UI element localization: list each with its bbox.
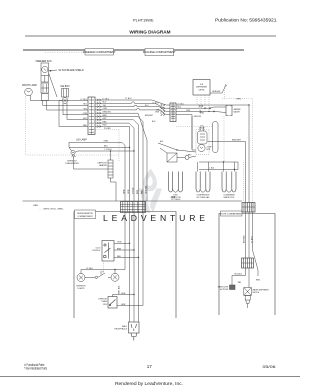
wire fan conn pin1 <box>43 101 89 106</box>
refrigerator compartment box <box>74 212 176 319</box>
svg-text:CNTRL: CNTRL <box>198 89 204 91</box>
svg-text:GRN-YEL: GRN-YEL <box>194 116 202 118</box>
svg-text:BRN-WHT: BRN-WHT <box>145 115 153 117</box>
freezer fan connector stack <box>41 83 49 101</box>
dashed boundary left of freezer label <box>45 51 85 53</box>
wire ORN to bundle <box>69 141 125 201</box>
left bus wire labels <box>80 99 87 127</box>
svg-text:BRN: BRN <box>137 189 139 194</box>
svg-text:WATER DISPENSER: WATER DISPENSER <box>253 288 270 291</box>
svg-text:ORN: ORN <box>117 242 122 244</box>
dashed drop near door hinge <box>243 162 245 202</box>
door hinge connector <box>242 203 255 213</box>
dispenser switch tail connector <box>245 296 250 309</box>
svg-text:LT BLU: LT BLU <box>132 187 134 194</box>
wire ORN to strip B <box>95 108 170 114</box>
compressor lower wires <box>198 161 239 172</box>
svg-text:YEL: YEL <box>83 108 87 110</box>
svg-text:GRN: GRN <box>33 205 38 207</box>
svg-text:DOOR COMPARTMENT: DOOR COMPARTMENT <box>220 213 243 216</box>
strip B right labels <box>178 103 191 111</box>
water dispenser switch <box>244 268 270 296</box>
dashed spare wire <box>95 130 119 161</box>
svg-text:GRN: GRN <box>123 189 125 194</box>
freezer compartment top boundary line <box>23 49 244 51</box>
wire PUR corner down <box>95 126 130 201</box>
wire motor to ice maker area <box>49 73 57 97</box>
small wire labels machine area <box>152 111 204 123</box>
svg-text:CAPACITOR: CAPACITOR <box>170 196 181 199</box>
svg-text:RED: RED <box>117 256 122 258</box>
door switch <box>85 271 105 279</box>
svg-text:ORN: ORN <box>83 113 88 115</box>
dashed run from front lamp <box>26 96 120 155</box>
svg-text:BLU-BLK: BLU-BLK <box>235 274 243 276</box>
svg-text:FREEZER COMPARTMENT: FREEZER COMPARTMENT <box>83 50 116 54</box>
svg-text:WIRING DIAGRAM: WIRING DIAGRAM <box>129 30 170 35</box>
bus wires to machine compartment <box>95 100 170 201</box>
wire RED bend down <box>95 123 134 201</box>
wire to valve <box>176 107 226 108</box>
water valve <box>226 106 241 116</box>
defrost heater <box>97 160 113 178</box>
rotated wire labels below connector <box>244 234 254 243</box>
wire fan conn pin2 <box>47 101 89 111</box>
svg-text:GRN: GRN <box>121 304 126 306</box>
connector strip B <box>170 103 176 122</box>
chevrons before strip B <box>161 104 166 116</box>
defrost thermostat <box>65 156 79 166</box>
svg-text:ORN: ORN <box>155 111 160 113</box>
svg-text:FRONT LAMP: FRONT LAMP <box>22 84 37 87</box>
svg-text:W/ FAN BLADE SHIELD: W/ FAN BLADE SHIELD <box>59 69 84 72</box>
svg-text:SWITCH: SWITCH <box>253 292 260 294</box>
svg-text:ORN: ORN <box>104 141 109 143</box>
connector strip A <box>88 97 95 135</box>
wires right of strip B <box>176 105 249 149</box>
wire heater top to lt blu <box>110 150 111 160</box>
dispenser actuator <box>242 258 254 268</box>
pre strip B labels <box>145 103 161 117</box>
svg-text:COMPARTMENT: COMPARTMENT <box>77 215 93 218</box>
right bus wire labels <box>103 98 111 126</box>
svg-text:BLK: BLK <box>104 146 108 148</box>
wire LT.BLU long <box>176 104 249 106</box>
svg-text:BRN-WHT: BRN-WHT <box>232 140 242 142</box>
compressor relay unit dashed enclosure <box>196 130 209 155</box>
svg-text:LT. BLU: LT. BLU <box>153 103 160 105</box>
svg-text:GRN: GRN <box>121 293 126 295</box>
svg-text:ACTR SW: ACTR SW <box>220 288 228 291</box>
svg-text:05/06: 05/06 <box>263 365 276 369</box>
front lamp <box>22 84 37 96</box>
svg-text:LID LAMP: LID LAMP <box>76 139 87 142</box>
svg-text:HEATER: HEATER <box>99 164 108 167</box>
start relay box <box>167 153 192 162</box>
svg-text:LT. BLU: LT. BLU <box>80 99 87 101</box>
wire down to relay <box>176 115 192 149</box>
wires below hinge connector <box>246 212 261 282</box>
wire bend to paddle <box>232 268 246 285</box>
svg-text:MACHINE COMPARTMENT: MACHINE COMPARTMENT <box>143 50 176 54</box>
compressor <box>196 172 210 200</box>
svg-text:L BLU: L BLU <box>210 168 215 170</box>
wire BLK mid <box>69 146 130 151</box>
dashed wire row <box>176 126 213 128</box>
cabinet pass-through connector <box>121 202 146 213</box>
chevrons right of strip A <box>97 99 102 128</box>
junction dots <box>204 107 215 112</box>
svg-text:REFRIGERATOR: REFRIGERATOR <box>77 212 93 215</box>
dashed drops from control box to bus <box>197 86 225 113</box>
svg-text:BRN: BRN <box>237 98 242 100</box>
svg-text:BLU: BLU <box>83 104 87 106</box>
dispenser lamp lead <box>210 84 227 93</box>
svg-text:RED: RED <box>83 125 88 127</box>
header rule <box>25 35 276 37</box>
svg-text:17: 17 <box>147 364 153 369</box>
condenser fan fork <box>222 172 236 200</box>
svg-text:FAN MOTOR: FAN MOTOR <box>224 196 235 199</box>
watermark flame logo <box>139 169 163 214</box>
control box wires <box>104 243 140 272</box>
overload motor circle <box>198 144 213 151</box>
svg-text:LT. BLU: LT. BLU <box>125 98 132 100</box>
run capacitor <box>169 172 183 200</box>
svg-text:Publication No: 5995435921: Publication No: 5995435921 <box>215 18 277 24</box>
svg-text:CPT SHLD: CPT SHLD <box>171 199 181 201</box>
svg-text:LIGHTS: LIGHTS <box>78 288 86 290</box>
svg-text:FREEZER FAN: FREEZER FAN <box>36 60 52 63</box>
freezer fan motor <box>36 60 52 82</box>
svg-text:WATER: WATER <box>234 108 242 111</box>
wire ice maker pin2 <box>67 103 88 119</box>
ground bus line <box>23 200 243 202</box>
feed wires into refrigerator <box>125 213 143 328</box>
svg-text:ORN: ORN <box>128 189 130 194</box>
svg-text:* Non-Illustrated Parts: * Non-Illustrated Parts <box>24 367 47 371</box>
svg-text:VALVE: VALVE <box>234 111 241 114</box>
interior lamp 2 <box>108 269 119 282</box>
defrost timer <box>98 297 117 309</box>
frz lamp <box>71 139 87 155</box>
start capacitor housing <box>213 122 219 153</box>
svg-text:WATER DISP: WATER DISP <box>218 286 229 289</box>
cold control box <box>92 241 114 262</box>
wire lamp to bus <box>31 95 89 100</box>
svg-text:PL BRN: PL BRN <box>104 128 111 130</box>
interior lamp 1 <box>76 274 86 291</box>
wire LT. BLU to bundle <box>75 149 135 152</box>
rotated bundle labels <box>123 186 147 194</box>
svg-text:GRN-YEL: GRN-YEL <box>145 186 147 194</box>
dashed drop from valve area <box>223 116 225 162</box>
timer wires <box>113 293 144 306</box>
door compartment label box <box>220 211 243 216</box>
ice maker <box>60 86 70 103</box>
wires through connector <box>125 202 143 213</box>
wire to valve lower <box>176 111 226 112</box>
power cord receptacle <box>115 322 139 341</box>
wire thermostat to heater <box>73 155 108 169</box>
fan blade shield note <box>49 69 84 72</box>
wire heater bottom to ground bus <box>111 178 117 201</box>
wire LT.BLU to strip B <box>95 100 170 105</box>
indoor boundary dashes <box>222 99 253 214</box>
freezer compartment label box <box>83 49 116 55</box>
fan-out wires to relay <box>158 117 196 158</box>
svg-text:PLHT19WE: PLHT19WE <box>133 17 154 22</box>
svg-text:BRN-WHT: BRN-WHT <box>213 91 221 93</box>
wire ice maker pin3 <box>59 101 88 127</box>
svg-text:RED: RED <box>141 189 143 194</box>
ice dispenser control box <box>193 80 210 96</box>
wires above hinge connector <box>246 104 250 202</box>
wire BRN-WHT right <box>208 140 246 142</box>
svg-text:ICE BOX: ICE BOX <box>60 86 70 88</box>
door compartment box <box>219 214 275 316</box>
wire YEL to strip B <box>95 105 170 111</box>
water paddle switch <box>218 285 235 291</box>
svg-text:CONTROL: CONTROL <box>92 250 101 252</box>
svg-text:. . . . . WHT4 OR B.L. SHELL: . . . . . WHT4 OR B.L. SHELL <box>38 208 65 210</box>
interior lamp wire <box>81 268 125 274</box>
wire GRY bend down <box>95 120 139 201</box>
note above connector <box>171 197 181 202</box>
svg-text:BRN: BRN <box>117 248 122 250</box>
svg-text:LT. BLU: LT. BLU <box>86 268 94 270</box>
PTC relay <box>198 125 208 144</box>
refrigerator compartment label box <box>75 210 96 219</box>
chevrons mid bus <box>199 105 204 113</box>
wire BLU to strip B <box>95 102 170 108</box>
svg-text:W/ OVERLOAD: W/ OVERLOAD <box>197 196 210 199</box>
svg-text:RECEPTACLE: RECEPTACLE <box>115 328 128 331</box>
svg-text:THERMOSTAT: THERMOSTAT <box>65 162 79 165</box>
wire GRN-YEL diagonal to cabinet <box>95 113 147 201</box>
machine compartment label box <box>143 49 176 56</box>
footer rule <box>0 376 300 378</box>
svg-text:WALL: WALL <box>122 325 127 328</box>
svg-text:Rendered by LeadVenture, Inc.: Rendered by LeadVenture, Inc. <box>115 381 183 386</box>
wire BRN bend down <box>95 117 143 202</box>
svg-text:DISPENSER: DISPENSER <box>196 87 208 89</box>
wire ice maker pin1 <box>63 103 88 115</box>
